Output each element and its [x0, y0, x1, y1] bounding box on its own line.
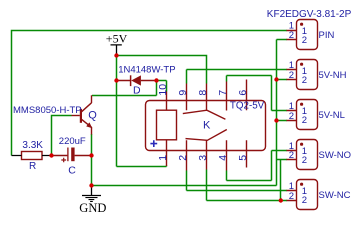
svg-text:6: 6: [237, 90, 249, 96]
junction dot diode cathode: [154, 78, 158, 82]
connector P3 polarity dot: [300, 103, 303, 106]
svg-text:5V-NL: 5V-NL: [319, 110, 345, 121]
wire relay pin9 to 5V-NH pin1: [187, 70, 288, 84]
connector P4 polarity dot: [300, 143, 303, 146]
svg-text:8: 8: [197, 90, 209, 96]
svg-text:5V-NH: 5V-NH: [319, 70, 347, 81]
wire +5V to relay pin8: [117, 55, 207, 84]
svg-text:10: 10: [157, 84, 169, 96]
svg-text:4: 4: [217, 155, 229, 161]
svg-text:TQ2-5V: TQ2-5V: [230, 100, 265, 111]
wire emitter down to GND node: [91, 134, 93, 186]
svg-text:PIN: PIN: [319, 30, 335, 41]
junction dot R-C-base node: [49, 153, 53, 157]
relay outer pin stubs top: [167, 80, 247, 101]
resistor R leads: [12, 155, 51, 157]
svg-text:220uF: 220uF: [59, 136, 86, 147]
svg-text:2: 2: [302, 75, 307, 86]
junction dot SW-NC pin2: [279, 198, 283, 202]
svg-text:K: K: [203, 120, 211, 132]
svg-text:SW-NO: SW-NO: [319, 150, 352, 161]
junction dot bus 5V-NL pin2: [274, 118, 278, 122]
connector P5 polarity dot: [300, 183, 303, 186]
svg-text:C: C: [68, 164, 76, 176]
relay coil plus sign: [150, 140, 157, 147]
wire bus tap 5V-NL pin2: [277, 120, 288, 122]
svg-text:9: 9: [177, 90, 189, 96]
svg-text:2: 2: [289, 30, 294, 41]
svg-text:+5V: +5V: [106, 31, 128, 45]
svg-text:2: 2: [289, 70, 294, 81]
connector P5 SW-NC box: [297, 180, 318, 210]
wire collector to diode cathode and relay pin10: [92, 81, 167, 96]
capacitor C thick plate: [71, 148, 74, 162]
ground GND symbol: [82, 186, 101, 202]
power +5V symbol bar and stem: [111, 45, 122, 56]
capacitor plus sign: [61, 158, 66, 163]
diode triangle: [131, 75, 141, 85]
connector P2 5V-NH box: [297, 60, 318, 90]
connector P1 pin stubs: [287, 31, 297, 40]
relay contact blades top pole: [183, 110, 226, 119]
connector P5 pin stubs: [287, 191, 297, 201]
junction dot GND node: [89, 183, 93, 187]
svg-text:GND: GND: [79, 201, 106, 215]
svg-text:Q: Q: [88, 110, 97, 122]
svg-text:3: 3: [197, 155, 209, 161]
svg-text:2: 2: [302, 115, 307, 126]
capacitor C leads: [52, 155, 91, 157]
relay K body box: [146, 101, 266, 151]
wire relay pin3 to SW-NC pin2: [207, 170, 288, 201]
junction dot bus 5V-NH pin2: [274, 77, 278, 81]
wire +5V down to diode anode and relay coil pin1: [117, 56, 167, 167]
wire relay pin7 to 5V-NL pin1: [227, 76, 288, 111]
connector P1 polarity dot: [300, 23, 303, 26]
connector P1 PIN box: [297, 20, 318, 50]
resistor R body: [22, 152, 43, 160]
relay inner pin stubs: [167, 101, 247, 151]
svg-text:2: 2: [302, 155, 307, 166]
junction dot C-emitter node: [89, 153, 93, 157]
wire GND line to right bus and PIN pin2: [92, 40, 288, 186]
diode D leads: [117, 80, 157, 82]
junction dot +5V node: [114, 53, 118, 57]
svg-text:D: D: [133, 85, 141, 97]
connector P4 pin stubs: [287, 151, 297, 160]
svg-text:MMS8050-H-TP: MMS8050-H-TP: [13, 105, 82, 116]
svg-text:KF2EDGV-3.81-2P: KF2EDGV-3.81-2P: [267, 9, 352, 20]
connector P4 SW-NO box: [297, 140, 318, 170]
connector P3 5V-NL box: [297, 100, 318, 130]
connector P2 polarity dot: [300, 63, 303, 66]
relay outer pin stubs bottom: [167, 151, 247, 171]
svg-text:2: 2: [302, 195, 307, 206]
svg-text:2: 2: [177, 155, 189, 161]
capacitor C thin plate: [67, 148, 69, 162]
svg-text:2: 2: [289, 150, 294, 161]
transistor emitter arrow: [86, 122, 92, 128]
relay coil rectangle: [157, 110, 177, 140]
connector P2 pin stubs: [287, 70, 297, 80]
svg-text:SW-NC: SW-NC: [319, 190, 351, 201]
wire base net from R junction up and right to Q base: [51, 116, 72, 156]
svg-text:1N4148W-TP: 1N4148W-TP: [118, 64, 175, 75]
svg-text:7: 7: [217, 90, 229, 96]
svg-text:2: 2: [302, 35, 307, 46]
wire relay pin2 to SW-NC pin1: [187, 171, 288, 191]
connector P3 pin stubs: [287, 111, 297, 121]
svg-text:R: R: [29, 161, 36, 172]
relay contact blades bottom pole: [186, 130, 227, 141]
junction dot diode anode: [114, 78, 118, 82]
diode cathode bar: [130, 75, 132, 86]
wire PIN net top horizontal and left vertical: [12, 30, 288, 156]
wire bus tap 5V-NH pin2: [277, 79, 288, 81]
svg-text:2: 2: [289, 111, 294, 122]
svg-text:5: 5: [237, 155, 249, 161]
svg-text:3.3K: 3.3K: [22, 140, 43, 151]
wire relay pin4 to SW-NO pin1: [227, 151, 288, 181]
transistor Q MMS8050 symbol: [72, 95, 92, 134]
svg-text:2: 2: [289, 191, 294, 202]
wire SW-NO pin2 down to SW-NC pin2 node: [277, 160, 288, 201]
svg-text:1: 1: [157, 155, 169, 161]
